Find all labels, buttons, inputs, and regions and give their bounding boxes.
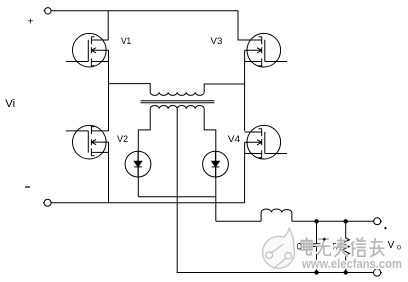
wire to inductor: [216, 220, 261, 222]
wire rectifier rail: [138, 196, 216, 198]
node L-C junction: [314, 219, 318, 223]
svg-text:V4: V4: [228, 134, 240, 144]
input - terminal: [44, 199, 51, 206]
inductor L: [261, 209, 292, 221]
diode D1: [125, 151, 151, 177]
svg-text:V2: V2: [117, 134, 128, 144]
wire V2 source drop: [108, 142, 110, 203]
wire primary tap right: [204, 84, 244, 92]
output top wire: [292, 220, 374, 222]
watermark text 电子发烧友 (drawn as fake glyph strokes, embossed): [300, 236, 384, 257]
svg-text:C: C: [297, 241, 302, 251]
secondary winding: [150, 106, 204, 109]
core lines: [141, 101, 215, 103]
wire secondary left drop: [138, 109, 150, 197]
label - (input): [25, 186, 30, 188]
junction dots: [314, 219, 348, 275]
primary winding: [150, 92, 204, 95]
input + terminal: [45, 8, 51, 14]
transformer T1: [138, 92, 373, 272]
svg-text:Vi: Vi: [5, 98, 15, 110]
svg-text:o: o: [397, 243, 402, 252]
svg-text:+: +: [27, 15, 33, 27]
output - terminal: [374, 269, 381, 276]
label + (capacitor): [323, 238, 326, 241]
wire secondary right drop: [204, 109, 216, 222]
capacitor C branch: [313, 221, 321, 272]
mosfet V3: [245, 33, 287, 67]
node C-R top junction: [344, 219, 348, 223]
svg-text:V: V: [388, 240, 395, 251]
wire right leg mid vertical: [244, 50, 246, 131]
watermark url www.elecfans.com (embossed): [301, 257, 402, 271]
output + terminal: [374, 218, 381, 225]
wire center tap down and across to output: [177, 109, 373, 273]
node C bottom junction: [314, 270, 318, 274]
wire primary tap left: [109, 84, 151, 93]
wire V3 drain drop: [238, 11, 245, 40]
label + (output): [384, 227, 386, 229]
top rail: [51, 10, 238, 12]
wire V4 source drop: [244, 142, 246, 202]
mosfet V4: [245, 125, 287, 159]
mosfet V2: [66, 125, 109, 159]
diode D2: [203, 151, 229, 177]
svg-text:www.elecfans.com: www.elecfans.com: [301, 257, 402, 271]
mosfet V1: [66, 33, 109, 67]
node R bottom junction: [344, 270, 348, 274]
wire left leg mid vertical: [108, 50, 110, 131]
watermark logo (elecfans): [263, 228, 295, 268]
wire V1 drain drop: [107, 11, 109, 40]
svg-text:V1: V1: [121, 36, 131, 46]
bottom input wire: [51, 202, 245, 204]
resistor R branch: [342, 221, 349, 272]
svg-text:V3: V3: [211, 36, 223, 46]
